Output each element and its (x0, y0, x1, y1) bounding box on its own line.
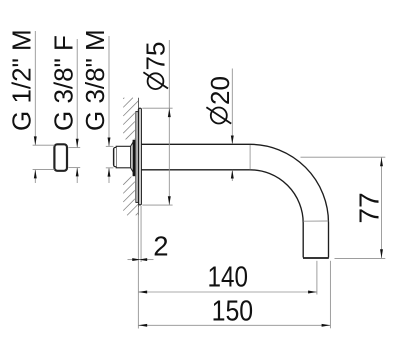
wall face line (138, 98, 140, 216)
spout tube inner edge (141, 170, 303, 258)
dimension 150 (138, 261, 330, 329)
outlet end cap (303, 257, 329, 259)
arrow Ø75 top (168, 108, 171, 117)
dimension G 1/2" M leader (33, 31, 55, 183)
arrow G1/2 top (34, 136, 37, 145)
arrow G3/8F bottom (76, 168, 79, 177)
dimension 140 (138, 261, 317, 295)
arrow G3/8M bottom (108, 168, 111, 177)
arrow 77 top (380, 158, 383, 167)
dimension G 3/8" M leader (106, 36, 114, 183)
Ø75 diameter symbol slash (143, 72, 168, 88)
arrow G3/8F top (76, 139, 79, 148)
Ø20 diameter symbol slash (206, 107, 231, 123)
adapter fitting (54, 144, 67, 171)
arrow Ø75 bottom (168, 196, 171, 205)
svg-text:77: 77 (353, 192, 384, 223)
recessed ring (136, 112, 138, 203)
svg-text:G 3/8" F: G 3/8" F (48, 35, 78, 131)
svg-text:150: 150 (212, 296, 254, 328)
svg-text:G 3/8" M: G 3/8" M (80, 29, 110, 131)
arrow 150 left (138, 324, 147, 327)
spout tube outer edge (141, 144, 328, 257)
arrow 2 left (138, 258, 147, 261)
wall hatch (123, 98, 138, 216)
arrow 140 right (308, 291, 317, 294)
dimension G 3/8" F leader (69, 39, 81, 183)
outlet joint line (303, 220, 328, 222)
svg-text:140: 140 (208, 262, 249, 294)
dimension Ø75 (142, 40, 172, 205)
arrow G3/8M top (108, 138, 111, 147)
wall hole clearance (white) (118, 139, 138, 176)
dimension 2 extension lines (128, 206, 154, 329)
svg-text:2: 2 (153, 230, 168, 261)
arrow 150 right (322, 324, 331, 327)
nipple cap inner line (114, 148, 116, 166)
nipple end cap (113, 147, 116, 166)
tube joint line (249, 145, 251, 170)
recess clearance (white) (135, 110, 139, 203)
arrow 77 bottom (380, 249, 383, 258)
arrow 140 left (138, 291, 147, 294)
nipple body G3/8 M (116, 146, 130, 168)
Ø75 diameter symbol circle (148, 73, 164, 89)
dimension 77 (301, 157, 386, 258)
svg-text:20: 20 (205, 76, 235, 105)
nipple black collar (133, 140, 136, 176)
arrow Ø20 top (231, 135, 234, 144)
arrow G1/2 bottom (34, 170, 37, 179)
arrow 2 right (132, 258, 141, 261)
svg-text:G 1/2" M: G 1/2" M (7, 29, 37, 131)
svg-text:75: 75 (141, 42, 171, 71)
arrow Ø20 bottom (231, 170, 234, 179)
nipple flare (131, 142, 134, 173)
dimension Ø20 (231, 69, 233, 182)
Ø20 diameter symbol circle (211, 108, 227, 124)
escutcheon disc (139, 108, 142, 205)
